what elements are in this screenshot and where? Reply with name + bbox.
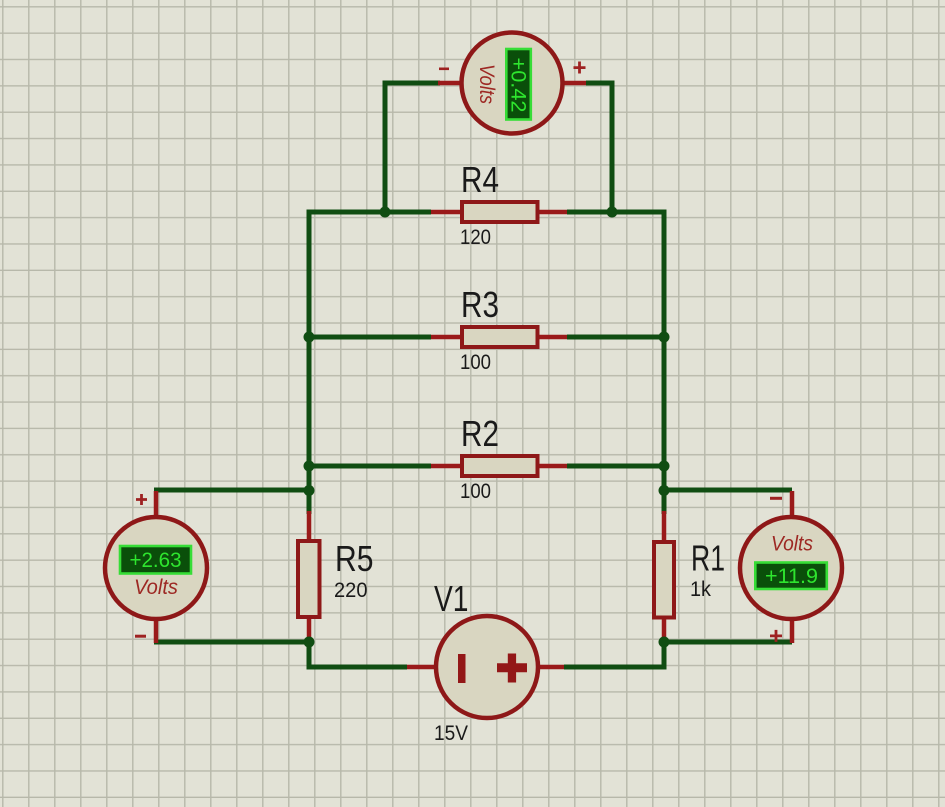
- wire: right rail to VM3 negative terminal: [664, 488, 792, 493]
- voltmeter VM3 (right): [740, 491, 842, 643]
- resistor R1 (vertical, right rail): [654, 511, 674, 642]
- battery V1 (DC voltage source): [407, 616, 564, 718]
- svg-text:R2: R2: [461, 413, 499, 454]
- junction at VM2 positive tap: [304, 485, 315, 496]
- junction at R2 left: [304, 461, 315, 472]
- junction at R4 right / VM1 wire: [607, 207, 618, 218]
- junction at VM3 negative tap: [659, 485, 670, 496]
- junction at R4 left / VM1 wire: [380, 207, 391, 218]
- wire: R4 left segment and left rail top: [309, 212, 431, 514]
- V1 positive plus mark: [497, 654, 527, 683]
- wire: R2 row left segment: [309, 464, 431, 469]
- svg-text:R4: R4: [461, 159, 499, 200]
- junction at R3 right: [659, 332, 670, 343]
- wire: VM2 positive terminal to left rail: [154, 488, 309, 493]
- V1 negative plate mark: [458, 654, 466, 683]
- svg-text:R5: R5: [335, 538, 374, 579]
- voltmeter VM1 (top): [438, 33, 586, 134]
- junction at R2 right: [659, 461, 670, 472]
- voltmeter VM2 (left): [105, 491, 207, 643]
- svg-text:Volts: Volts: [771, 532, 813, 556]
- wire: R3 row left segment: [309, 335, 431, 340]
- svg-text:100: 100: [460, 351, 491, 374]
- wire: VM2 negative terminal to left rail: [154, 640, 309, 645]
- svg-text:15V: 15V: [434, 722, 468, 745]
- VM1 negative pin mark: [439, 68, 449, 71]
- wire: VM1 positive terminal to node at R4 right: [586, 83, 612, 212]
- wire: right rail bottom to V1 positive: [564, 640, 664, 667]
- VM2 positive pin mark: [136, 494, 147, 505]
- resistor R3: [431, 327, 567, 347]
- svg-text:V1: V1: [434, 578, 469, 619]
- wire: R2 row right segment: [567, 464, 664, 469]
- VM3 negative pin mark: [770, 497, 782, 500]
- wire: left rail bottom to V1 negative: [309, 640, 407, 667]
- VM3 positive pin mark: [770, 630, 782, 642]
- VM2 negative pin mark: [135, 635, 146, 638]
- resistor R4: [431, 202, 567, 222]
- svg-text:+11.9: +11.9: [765, 564, 818, 588]
- svg-text:Volts: Volts: [134, 575, 178, 599]
- junction at VM3 positive tap: [659, 637, 670, 648]
- svg-text:R3: R3: [461, 284, 499, 325]
- svg-text:Volts: Volts: [475, 64, 499, 104]
- wire: VM1 negative terminal to node at R4 left: [385, 83, 440, 212]
- resistor R2: [431, 456, 567, 476]
- resistor R5 (vertical, left rail): [298, 511, 320, 642]
- svg-text:220: 220: [334, 579, 368, 602]
- svg-text:100: 100: [460, 480, 491, 503]
- wire: right rail to VM3 positive terminal: [664, 640, 792, 645]
- wire: R4 right segment and right rail top: [567, 212, 664, 514]
- svg-text:R1: R1: [691, 538, 725, 579]
- junction at VM2 negative tap: [304, 637, 315, 648]
- VM1 positive pin mark: [574, 62, 586, 74]
- svg-text:+2.63: +2.63: [130, 548, 182, 572]
- svg-text:1k: 1k: [690, 578, 711, 601]
- svg-text:120: 120: [460, 226, 491, 249]
- svg-text:+0.42: +0.42: [507, 58, 531, 113]
- junction at R3 left: [304, 332, 315, 343]
- wire: R3 row right segment: [567, 335, 664, 340]
